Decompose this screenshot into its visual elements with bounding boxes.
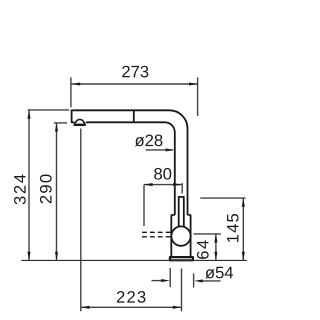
spout tip end cap bbox=[72, 110, 75, 123]
label 324 (rotated) bbox=[14, 174, 26, 204]
arrow 64 up bbox=[214, 234, 217, 243]
dim 223 right extension bbox=[181, 269, 183, 312]
arrow 273 left bbox=[72, 82, 81, 85]
dim 324 line bbox=[28, 110, 30, 260]
body sides bbox=[171, 215, 190, 257]
dim 80 line bbox=[144, 184, 182, 186]
label 64 (rotated) bbox=[197, 240, 209, 259]
dim 223 line bbox=[81, 306, 182, 308]
dim 223 left extension bbox=[80, 129, 82, 312]
hose dashed lines bbox=[142, 232, 171, 237]
dim 273 right extension bbox=[197, 77, 199, 116]
arrow 223 left bbox=[81, 306, 90, 309]
arrow 324 down bbox=[27, 252, 30, 261]
dia54 left tick bbox=[169, 268, 171, 287]
lever stick bbox=[179, 197, 184, 228]
label 290 (rotated) bbox=[40, 174, 52, 203]
dia28 leader shaft bbox=[146, 149, 173, 151]
arrow 324 up bbox=[27, 110, 30, 119]
dim 145 line bbox=[242, 198, 244, 260]
arrow 290 up bbox=[55, 123, 58, 132]
arrow dia54 right bbox=[194, 279, 203, 282]
arrow 80 left bbox=[144, 183, 153, 186]
ball joint circle bbox=[171, 226, 190, 245]
body shoulders bbox=[171, 214, 190, 216]
arrow dia28 bbox=[166, 148, 175, 151]
dia54 right tick bbox=[193, 273, 195, 287]
dim 80 left extension bbox=[143, 185, 145, 226]
arrow 145 up bbox=[242, 198, 245, 207]
arrow 80 right bbox=[173, 183, 182, 186]
dim 145 top extension bbox=[200, 197, 245, 199]
dimension lines and extension lines bbox=[28, 77, 246, 311]
countertop line bbox=[21, 259, 246, 261]
dim 64 line bbox=[215, 234, 217, 261]
arrow 273 right bbox=[189, 82, 198, 85]
arrow 290 down bbox=[55, 252, 58, 261]
label dia28 bbox=[135, 137, 144, 146]
arrowheads bbox=[27, 82, 244, 308]
label 145 (rotated) bbox=[227, 214, 239, 242]
arrow 145 down bbox=[242, 252, 245, 261]
dia54 right shaft bbox=[203, 280, 221, 282]
dim 324 top extension bbox=[28, 109, 69, 111]
dim 290 line bbox=[56, 123, 58, 261]
label 80 bbox=[154, 168, 162, 180]
dim 290 top extension bbox=[54, 122, 67, 124]
aerator dome bbox=[74, 124, 86, 126]
label 223 bbox=[117, 291, 125, 303]
arrow 64 down bbox=[214, 252, 217, 261]
arrow dia54 left bbox=[161, 279, 170, 282]
dim 273 left extension bbox=[70, 77, 72, 107]
dim 273 line bbox=[72, 83, 198, 85]
label dia54 bbox=[205, 269, 214, 278]
dia54 left shaft bbox=[152, 280, 162, 282]
dim 80 right extension bbox=[181, 183, 183, 194]
arrow 223 right bbox=[173, 306, 182, 309]
base flange bbox=[170, 257, 193, 260]
faucet spout underside and inner bend bbox=[86, 122, 175, 215]
label 273 bbox=[122, 66, 130, 78]
dim 64 top extension bbox=[194, 233, 221, 235]
faucet spout and riser tube outer outline bbox=[72, 110, 193, 261]
spray head joint line bbox=[133, 110, 135, 122]
